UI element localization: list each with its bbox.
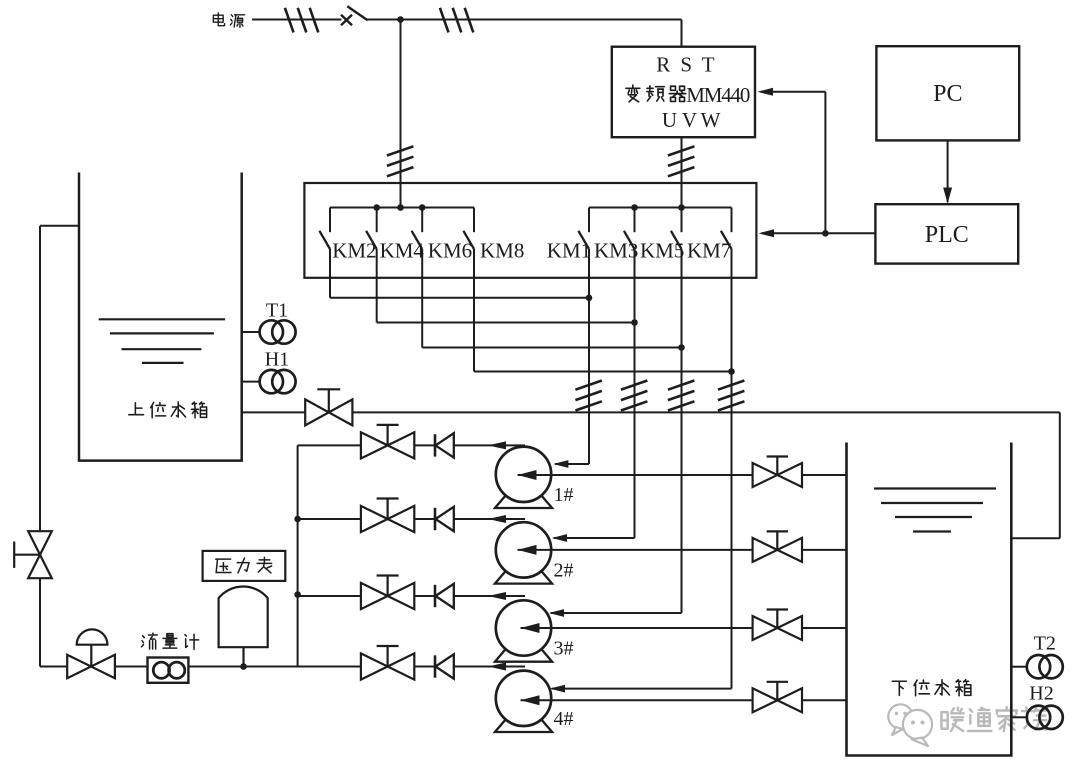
svg-text:V: V: [682, 108, 697, 132]
svg-text:MM440: MM440: [686, 83, 750, 107]
svg-text:KM7: KM7: [687, 239, 731, 263]
svg-text:PLC: PLC: [925, 222, 969, 248]
svg-text:KM8: KM8: [480, 239, 524, 263]
svg-text:H1: H1: [265, 348, 289, 370]
svg-text:2#: 2#: [554, 560, 574, 582]
svg-text:3#: 3#: [554, 638, 574, 660]
svg-text:W: W: [701, 108, 721, 132]
svg-text:4#: 4#: [554, 708, 574, 730]
svg-text:KM5: KM5: [640, 239, 684, 263]
svg-text:H2: H2: [1029, 683, 1053, 705]
svg-text:T1: T1: [266, 300, 288, 322]
svg-text:KM6: KM6: [428, 239, 472, 263]
svg-text:PC: PC: [933, 81, 962, 107]
svg-text:T2: T2: [1034, 633, 1056, 655]
svg-text:KM1: KM1: [547, 239, 591, 263]
svg-text:1#: 1#: [554, 484, 574, 506]
svg-text:KM4: KM4: [380, 239, 425, 263]
svg-text:R: R: [656, 53, 670, 77]
svg-text:T: T: [702, 53, 715, 77]
svg-text:KM3: KM3: [594, 239, 638, 263]
svg-text:KM2: KM2: [332, 239, 376, 263]
svg-text:S: S: [680, 53, 692, 77]
svg-text:U: U: [662, 108, 677, 132]
